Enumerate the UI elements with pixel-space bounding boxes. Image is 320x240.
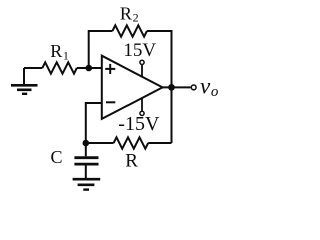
wire: feedback left vertical + top segment to R2 <box>89 31 113 68</box>
resistor R2 <box>112 25 146 36</box>
svg-text:-15V: -15V <box>118 113 160 135</box>
output terminal (open circle) <box>191 85 196 90</box>
svg-text:R: R <box>50 41 62 61</box>
node A: junction of R1, R2 feedback and + input <box>86 65 93 72</box>
node B: junction of - input, C and R <box>83 140 90 147</box>
svg-text:v: v <box>200 74 211 99</box>
wire: R to right vertical bottom corner <box>148 142 171 144</box>
svg-text:o: o <box>211 84 219 100</box>
wire: op-amp output to terminal <box>162 86 191 88</box>
capacitor C <box>74 143 98 178</box>
svg-text:15V: 15V <box>123 40 156 61</box>
ground (left) <box>11 68 38 94</box>
svg-text:2: 2 <box>133 11 139 25</box>
ground (bottom, below C) <box>73 179 101 189</box>
svg-text:R: R <box>120 4 132 24</box>
op-amp +15V supply pin <box>140 60 144 77</box>
op-amp -15V supply pin <box>140 98 144 116</box>
svg-text:C: C <box>51 147 63 167</box>
resistor R <box>114 137 149 148</box>
wire: R1 to op-amp + input <box>77 67 102 69</box>
wire: right vertical from output node down to bottom corner <box>171 87 173 143</box>
wire: node B to R <box>86 142 114 144</box>
wire: ground to R1 <box>24 67 42 69</box>
wire: R2 to right vertical, down to output node <box>147 31 172 87</box>
resistor R1 <box>42 62 77 73</box>
svg-text:1: 1 <box>63 48 69 62</box>
op-amp U1 <box>102 56 163 119</box>
wire: op-amp - input to node B <box>86 103 102 143</box>
node: output junction <box>168 84 175 91</box>
svg-text:R: R <box>125 150 138 171</box>
